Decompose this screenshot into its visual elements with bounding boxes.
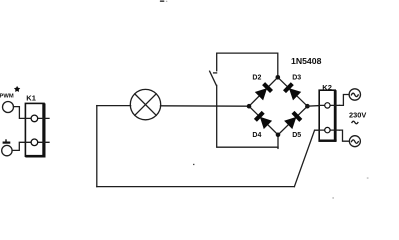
star marker (14, 86, 20, 92)
connector K2 (315, 90, 340, 142)
connector K1 (25, 103, 49, 157)
wire K2 pin1 to AC top (340, 95, 350, 106)
svg-text:230V: 230V (349, 111, 366, 120)
wire switch bottom (217, 85, 278, 147)
wire left vertical (96, 106, 98, 187)
bridge rectifier diamond (249, 77, 307, 135)
ground symbol (3, 142, 11, 144)
wire lamp left (97, 105, 131, 107)
svg-text:D5: D5 (292, 132, 301, 139)
lamp (130, 89, 160, 119)
diode D3 (283, 82, 301, 100)
svg-text:1N5408: 1N5408 (291, 56, 322, 66)
diode D5 (284, 111, 302, 129)
stray mark top (160, 0, 165, 2)
svg-text:D2: D2 (252, 75, 261, 82)
label AC tilde (352, 121, 358, 124)
svg-text:D3: D3 (292, 75, 301, 82)
svg-text:K1: K1 (26, 94, 36, 103)
ground terminal (2, 145, 12, 155)
node AC right (305, 104, 310, 109)
terminal PWM (3, 102, 14, 113)
AC source bottom (349, 136, 360, 147)
switch blade (210, 71, 217, 85)
diode D2 (255, 82, 273, 100)
node AC left (247, 104, 252, 109)
wire diagonal to K2 pin2 (294, 130, 319, 187)
wire ground to K1 pin2 (12, 142, 25, 150)
switch contact tick (214, 72, 217, 74)
wire PWM to K1 pin1 (14, 107, 26, 119)
wire bridge right to K2 (307, 105, 319, 108)
stray dot right mid (367, 177, 369, 179)
AC source top (349, 89, 360, 100)
wire K2 pin2 to AC bottom (340, 130, 350, 141)
wire lamp right to bridge (161, 105, 250, 107)
node minus (bottom) (276, 133, 281, 138)
wire bridge bottom stub (277, 147, 279, 148)
stray dot mid (193, 164, 194, 165)
svg-text:D4: D4 (252, 132, 261, 139)
wire bottom horizontal (97, 186, 295, 188)
diode D4 (254, 111, 272, 129)
stray dot right low (332, 197, 334, 199)
wire switch top feed (217, 53, 278, 77)
node plus (top) (276, 75, 281, 80)
svg-text:PWM: PWM (0, 94, 14, 100)
